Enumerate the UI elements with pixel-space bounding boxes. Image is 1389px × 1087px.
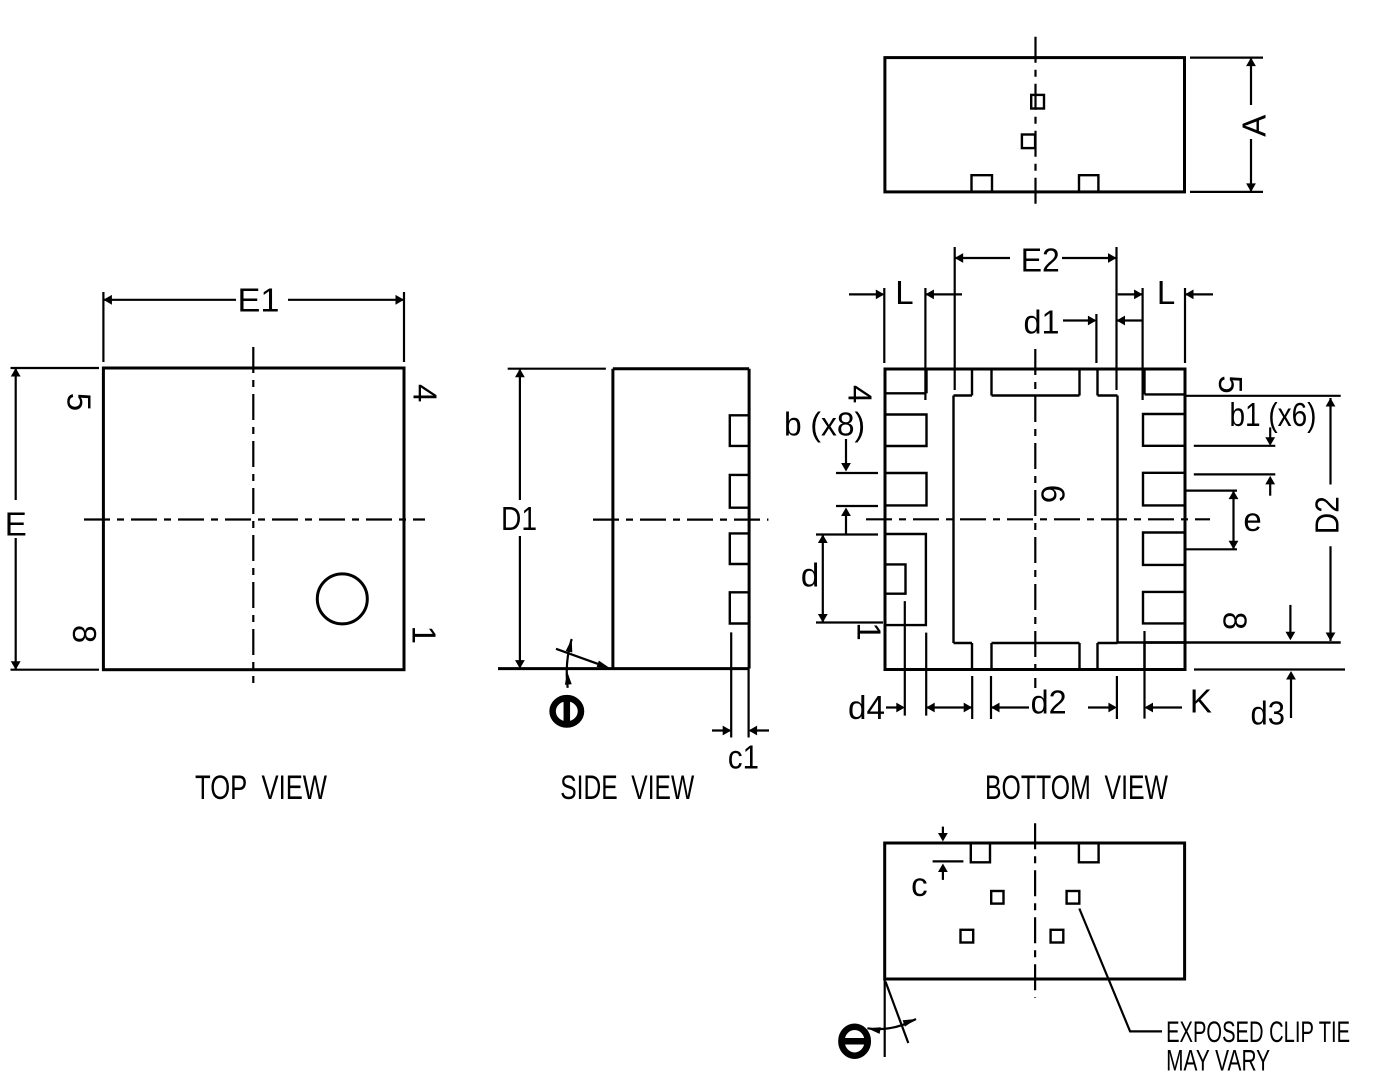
svg-text:TOP VIEW: TOP VIEW (195, 769, 327, 807)
svg-text:L: L (1157, 274, 1175, 311)
svg-text:d1: d1 (1024, 304, 1060, 341)
svg-text:4: 4 (842, 385, 879, 403)
svg-text:5: 5 (1212, 375, 1249, 393)
svg-text:d3: d3 (1251, 695, 1286, 732)
svg-text:b1 (x6): b1 (x6) (1230, 396, 1317, 433)
svg-text:c1: c1 (728, 739, 759, 776)
svg-text:L: L (895, 274, 913, 311)
svg-text:d2: d2 (1031, 683, 1067, 720)
svg-text:5: 5 (61, 393, 98, 411)
svg-text:b (x8): b (x8) (784, 406, 865, 443)
svg-text:MAY VARY: MAY VARY (1166, 1045, 1270, 1078)
svg-text:BOTTOM VIEW: BOTTOM VIEW (985, 769, 1168, 807)
svg-text:8: 8 (1217, 612, 1254, 630)
svg-text:SIDE VIEW: SIDE VIEW (560, 769, 694, 807)
svg-text:c: c (911, 866, 928, 903)
svg-text:A: A (1235, 115, 1272, 137)
svg-text:e: e (1243, 501, 1261, 538)
svg-text:8: 8 (66, 625, 103, 643)
svg-text:K: K (1190, 683, 1212, 720)
svg-text:D1: D1 (501, 500, 537, 537)
svg-text:d4: d4 (848, 689, 885, 726)
svg-text:d: d (801, 556, 819, 593)
svg-text:1: 1 (851, 622, 888, 640)
svg-text:E1: E1 (238, 282, 280, 319)
svg-text:E2: E2 (1021, 242, 1060, 279)
svg-text:4: 4 (407, 384, 444, 402)
svg-text:D2: D2 (1308, 496, 1345, 534)
svg-text:E: E (5, 506, 27, 543)
svg-text:6: 6 (1035, 485, 1072, 503)
svg-text:1: 1 (406, 626, 443, 644)
